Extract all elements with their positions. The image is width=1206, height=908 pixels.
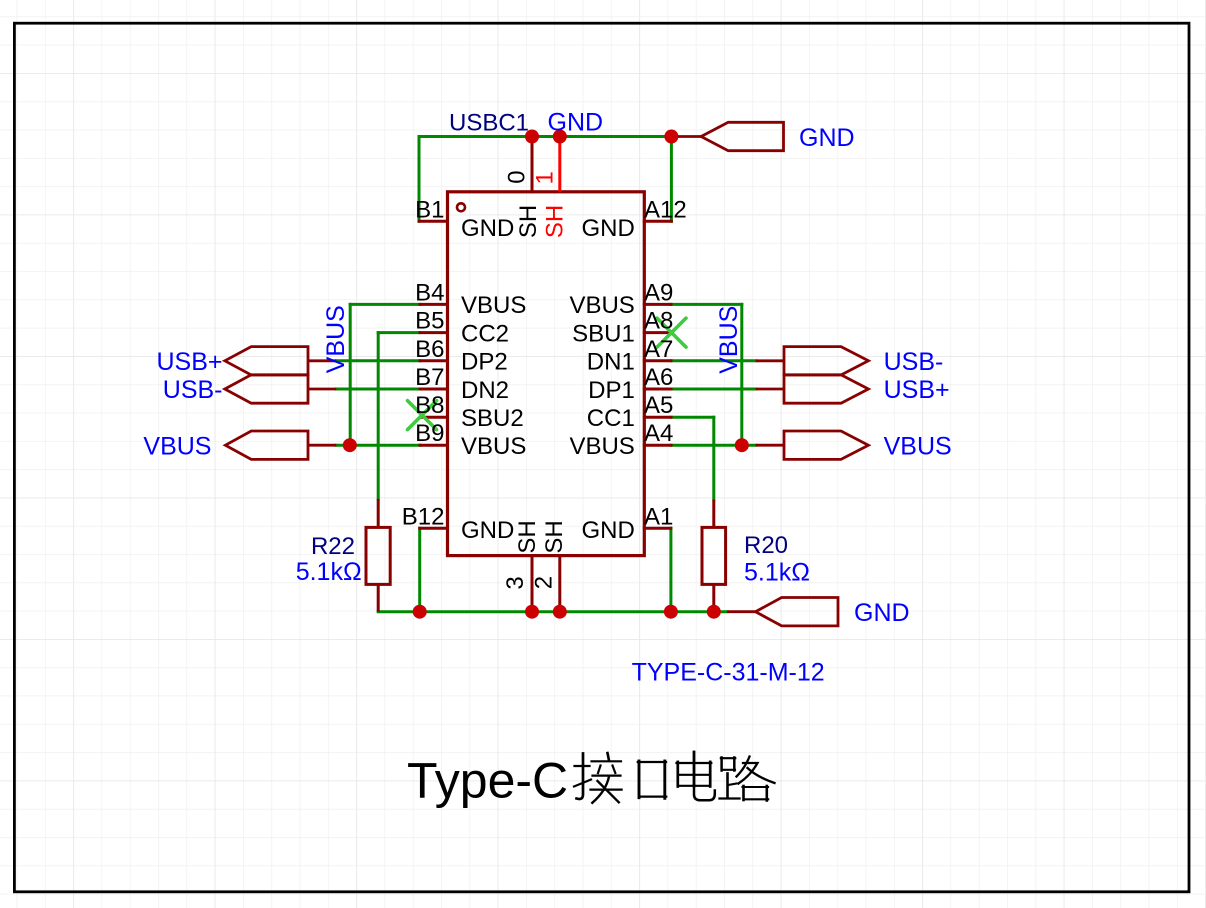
svg-text:VBUS: VBUS xyxy=(715,306,743,374)
IC U1 body TYPE-C-31-M-12 xyxy=(448,192,645,556)
junction dot top right corner xyxy=(664,130,678,144)
wire: A9 VBUS row xyxy=(671,303,742,306)
pin B4 stub xyxy=(420,303,448,306)
port flag GND bottom xyxy=(727,598,838,626)
svg-text:B12: B12 xyxy=(402,503,445,530)
svg-text:A6: A6 xyxy=(644,364,673,391)
svg-text:USB+: USB+ xyxy=(884,376,950,404)
wire: left VBUS vertical xyxy=(349,304,352,445)
svg-text:SH: SH xyxy=(541,520,568,553)
pin A6 stub xyxy=(644,388,671,391)
pin A1 stub xyxy=(644,527,671,530)
svg-text:GND: GND xyxy=(461,215,514,242)
svg-text:GND: GND xyxy=(854,599,910,627)
wire: A7 DN1 row xyxy=(671,359,756,362)
svg-text:0: 0 xyxy=(504,170,531,183)
port flag USB- right xyxy=(756,347,869,375)
svg-text:VBUS: VBUS xyxy=(461,292,526,319)
svg-text:A5: A5 xyxy=(644,392,673,419)
junction dot SH3 bus xyxy=(525,605,539,619)
svg-text:B5: B5 xyxy=(415,308,444,335)
pin B9 stub xyxy=(420,444,448,447)
port flag GND top xyxy=(671,122,783,150)
svg-text:SBU1: SBU1 xyxy=(572,320,635,347)
pin name labels inside IC xyxy=(461,205,635,554)
port flag USB- left xyxy=(225,375,336,403)
svg-text:R22: R22 xyxy=(311,533,355,560)
no-connect cross A8 xyxy=(657,318,686,347)
svg-text:2: 2 xyxy=(531,576,558,589)
wire: B9 VBUS row xyxy=(336,444,420,447)
junction dot R20 bus xyxy=(707,605,721,619)
svg-text:GND: GND xyxy=(581,215,634,242)
wire: B4 VBUS row xyxy=(350,303,420,306)
wire: B12 drop to GND bus xyxy=(418,528,421,611)
wire: drop to pin A12 xyxy=(670,137,673,222)
svg-text:A4: A4 xyxy=(644,420,673,447)
hanzi LU (road) xyxy=(720,757,775,801)
port flag VBUS left xyxy=(225,431,336,459)
wire: bottom GND bus xyxy=(378,610,727,613)
svg-text:B1: B1 xyxy=(415,196,444,223)
pin SH 2 stub bottom xyxy=(558,556,561,612)
svg-text:VBUS: VBUS xyxy=(143,432,211,460)
pin A12 stub xyxy=(644,220,671,223)
svg-text:DP1: DP1 xyxy=(588,377,635,404)
wire: CC2 vertical to R22 xyxy=(377,333,380,499)
port flag VBUS right xyxy=(756,431,869,459)
svg-text:1: 1 xyxy=(531,171,558,184)
svg-text:R20: R20 xyxy=(744,532,788,559)
pin SH 3 stub bottom xyxy=(531,556,534,612)
no-connect cross B8 xyxy=(408,401,437,430)
resistor R22 body xyxy=(366,499,390,612)
svg-text:B7: B7 xyxy=(415,364,444,391)
svg-text:B4: B4 xyxy=(415,279,444,306)
junction dot VBUS right xyxy=(735,438,749,452)
junction dot B12 bus xyxy=(413,605,427,619)
svg-text:DN1: DN1 xyxy=(587,349,635,376)
svg-text:Type-C: Type-C xyxy=(407,753,568,809)
svg-text:5.1kΩ: 5.1kΩ xyxy=(296,558,362,586)
svg-text:SH: SH xyxy=(515,205,542,238)
svg-text:A1: A1 xyxy=(644,503,673,530)
wire: B6 DP2 row xyxy=(336,359,420,362)
junction dot SH1 top xyxy=(553,130,567,144)
pin B8 stub xyxy=(420,416,448,419)
svg-text:TYPE-C-31-M-12: TYPE-C-31-M-12 xyxy=(632,659,825,687)
svg-text:A7: A7 xyxy=(644,336,673,363)
wire: B5 CC2 row xyxy=(378,331,420,334)
svg-text:VBUS: VBUS xyxy=(569,433,634,460)
svg-text:DP2: DP2 xyxy=(461,349,508,376)
svg-text:A12: A12 xyxy=(644,196,687,223)
wire: CC1 vertical to R20 xyxy=(712,417,715,499)
pin A5 stub xyxy=(644,416,671,419)
svg-text:5.1kΩ: 5.1kΩ xyxy=(744,559,810,587)
pin A4 stub xyxy=(644,444,671,447)
svg-text:B6: B6 xyxy=(415,336,444,363)
junction dot SH2 bus xyxy=(553,605,567,619)
resistor R20 body xyxy=(702,500,726,612)
pin B1 stub xyxy=(419,220,448,223)
wire: right VBUS vertical xyxy=(740,304,743,445)
pin B6 stub xyxy=(420,359,448,362)
pin A8 stub xyxy=(644,331,671,334)
hanzi JIE (interface) xyxy=(574,752,775,803)
wire: top GND bus horizontal xyxy=(419,135,671,138)
port flag USB+ left xyxy=(225,347,336,375)
pin number labels xyxy=(402,170,687,589)
svg-text:GND: GND xyxy=(799,124,855,152)
junction dot VBUS left xyxy=(343,438,357,452)
wire: A4 VBUS row xyxy=(671,444,756,447)
svg-text:VBUS: VBUS xyxy=(884,432,952,460)
svg-text:SH: SH xyxy=(514,520,541,553)
pin SH 0 stub top xyxy=(531,137,534,192)
svg-text:GND: GND xyxy=(548,109,604,137)
pin SH 1 highlighted red xyxy=(558,137,561,192)
svg-text:3: 3 xyxy=(502,576,529,589)
svg-text:GND: GND xyxy=(581,517,634,544)
svg-text:CC2: CC2 xyxy=(461,320,509,347)
svg-text:DN2: DN2 xyxy=(461,377,509,404)
port flag USB+ right xyxy=(756,375,869,403)
hanzi DIAN (electric) xyxy=(677,752,715,800)
pin B12 stub xyxy=(420,527,448,530)
wire: A6 DP1 row xyxy=(671,388,756,391)
designator texts navy xyxy=(311,110,788,560)
svg-text:VBUS: VBUS xyxy=(322,305,350,373)
pin A7 stub xyxy=(644,359,671,362)
junction dot A1 bus xyxy=(664,605,678,619)
wire: A5 CC1 row xyxy=(671,416,714,419)
pin A9 stub xyxy=(644,303,671,306)
pin B7 stub xyxy=(420,388,448,391)
svg-text:USBC1: USBC1 xyxy=(449,110,529,137)
svg-text:USB+: USB+ xyxy=(156,348,222,376)
svg-text:VBUS: VBUS xyxy=(461,433,526,460)
wire: A1 drop to GND bus xyxy=(669,528,672,611)
wire: drop to pin B1 xyxy=(418,137,421,222)
net label texts blue xyxy=(143,109,951,687)
svg-text:A9: A9 xyxy=(644,279,673,306)
svg-text:SBU2: SBU2 xyxy=(461,405,524,432)
svg-text:B9: B9 xyxy=(415,420,444,447)
svg-text:GND: GND xyxy=(461,517,514,544)
svg-text:USB-: USB- xyxy=(884,348,944,376)
svg-text:B8: B8 xyxy=(415,392,444,419)
wire: B7 DN2 row xyxy=(336,388,420,391)
svg-text:USB-: USB- xyxy=(163,376,223,404)
svg-text:SH: SH xyxy=(542,205,569,238)
svg-text:CC1: CC1 xyxy=(587,405,635,432)
svg-text:VBUS: VBUS xyxy=(569,292,634,319)
hanzi KOU (mouth) xyxy=(638,761,666,798)
svg-text:A8: A8 xyxy=(644,308,673,335)
pin1 indicator circle xyxy=(457,203,465,211)
junction dot SH0 top xyxy=(525,130,539,144)
pin B5 stub xyxy=(420,331,448,334)
